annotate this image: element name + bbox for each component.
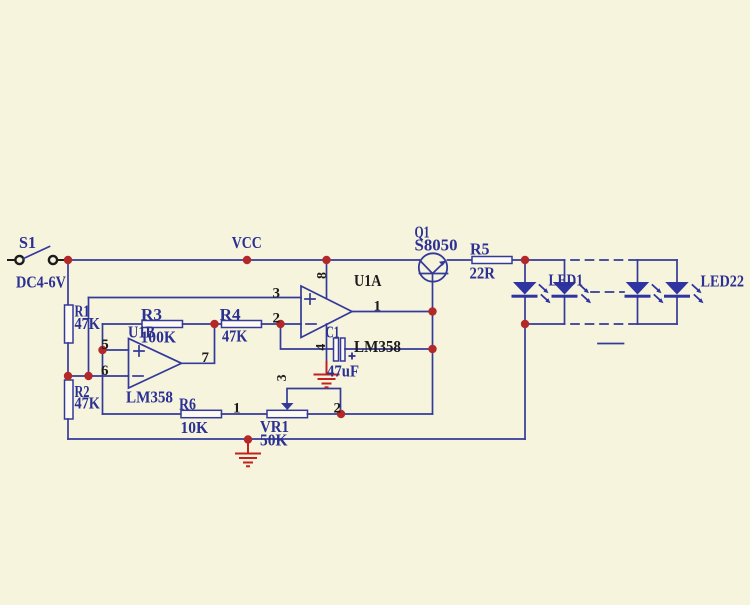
svg-text:6: 6 [101, 363, 109, 379]
LED1 [512, 282, 538, 298]
svg-text:R4: R4 [220, 305, 241, 324]
wire node A vertical [88, 298, 90, 377]
ground bottom rail [236, 440, 260, 466]
wire stub bottom mark [598, 343, 624, 345]
node pin2 [276, 320, 284, 328]
wire top rail [68, 259, 419, 261]
node divider mid [64, 372, 72, 380]
wire emitter to R5 [448, 259, 473, 261]
svg-text:S1: S1 [19, 233, 36, 252]
svg-text:LM358: LM358 [354, 337, 401, 356]
VR1 wiper arrow [281, 403, 294, 410]
labels black [354, 271, 401, 356]
node pin8 [322, 256, 330, 264]
LED21 arrows [653, 285, 664, 303]
node pin5 [98, 346, 106, 354]
node R3-R4 [210, 320, 218, 328]
wire pin5 [103, 349, 129, 351]
node LED bottom [521, 320, 529, 328]
svg-text:LED22: LED22 [701, 272, 745, 291]
node C1 right [428, 345, 436, 353]
wire feedback vertical [102, 324, 104, 414]
wire pin2 to C1 [281, 324, 334, 349]
svg-text:R5: R5 [470, 240, 490, 259]
resistor R2 [65, 380, 74, 419]
svg-text:R6: R6 [179, 395, 196, 414]
dashed wire bottom [571, 323, 638, 325]
ground under C1 [315, 362, 339, 387]
svg-text:5: 5 [101, 337, 109, 353]
wire bottom rail [68, 438, 525, 440]
svg-text:2: 2 [273, 311, 281, 327]
svg-text:47uF: 47uF [327, 362, 359, 381]
op-amp U1B [129, 339, 182, 389]
node ground rail [244, 435, 252, 443]
svg-text:47K: 47K [222, 327, 248, 346]
svg-text:DC4-6V: DC4-6V [16, 273, 66, 292]
LED group 1 frame [524, 260, 526, 439]
svg-text:7: 7 [202, 350, 210, 366]
svg-text:1: 1 [233, 401, 241, 417]
wire pin3 [89, 297, 302, 299]
resistor R6 [181, 410, 222, 417]
potentiometer VR1 [267, 410, 308, 417]
svg-text:3: 3 [273, 286, 281, 302]
LED1 arrows [540, 285, 551, 303]
wire left supply down [67, 260, 69, 305]
wire pin6 [68, 375, 129, 377]
wire R1 to junction [67, 343, 69, 380]
LED21 [625, 282, 651, 298]
svg-text:2: 2 [334, 401, 342, 417]
labels navy [16, 223, 744, 450]
dashed wire top [571, 259, 638, 261]
LED22 [664, 282, 690, 298]
wire VR1 wiper loop [287, 389, 341, 415]
wire C1 to Q1 line [345, 348, 433, 350]
wire R2 to bottom rail [67, 419, 69, 439]
pin numbers [101, 286, 381, 417]
transistor Q1 [419, 253, 448, 311]
label C1 polarity [349, 353, 356, 360]
node LED top [521, 256, 529, 264]
svg-text:1: 1 [374, 299, 382, 315]
wire R3 to R4 [183, 323, 222, 325]
wire VR1 to Q1 base line [308, 413, 433, 415]
LED2 [552, 282, 578, 298]
dashed wire middle [591, 291, 624, 293]
svg-text:47K: 47K [75, 394, 101, 413]
wire Q1 base down [432, 312, 434, 415]
node pin6 tap [84, 372, 92, 380]
svg-text:8: 8 [315, 272, 330, 279]
switch S1 [8, 247, 64, 265]
svg-text:C1: C1 [326, 323, 340, 342]
wire pin8 [326, 260, 328, 299]
svg-text:47K: 47K [75, 314, 101, 333]
svg-text:22R: 22R [470, 264, 496, 283]
svg-text:R3: R3 [141, 305, 162, 324]
wire U1B output [182, 324, 215, 363]
LED group 2 frame [637, 260, 639, 324]
svg-text:100K: 100K [141, 328, 177, 347]
node VR1 wiper tie [337, 410, 345, 418]
capacitor C1 [334, 338, 339, 361]
svg-text:U1A: U1A [354, 271, 382, 290]
svg-text:10K: 10K [181, 418, 209, 437]
junction dots [64, 256, 529, 444]
node DC input [64, 256, 72, 264]
LED22 arrows [693, 285, 704, 303]
svg-text:4: 4 [314, 344, 329, 351]
svg-text:S8050: S8050 [415, 236, 458, 255]
wire to R6 [103, 413, 182, 415]
svg-text:3: 3 [275, 374, 290, 381]
LED2 arrows [580, 285, 591, 303]
wire pin1 output [352, 311, 433, 313]
node pin1-base [428, 307, 436, 315]
resistor R1 [65, 305, 74, 343]
wire R4 to U1A [262, 323, 302, 325]
resistor R4 [222, 321, 262, 328]
node VCC [243, 256, 251, 264]
wire pin4 [326, 324, 328, 362]
resistor R3 [142, 321, 183, 328]
resistor R5 [472, 257, 512, 264]
svg-text:VCC: VCC [232, 233, 262, 252]
op-amp U1A [301, 286, 352, 338]
wire R5 to LED group [512, 259, 565, 261]
svg-text:50K: 50K [260, 431, 288, 450]
svg-text:LM358: LM358 [126, 388, 173, 407]
wire R6 to VR1 [222, 413, 268, 415]
svg-text:LED1: LED1 [549, 271, 584, 290]
wire to R3 [103, 323, 143, 325]
